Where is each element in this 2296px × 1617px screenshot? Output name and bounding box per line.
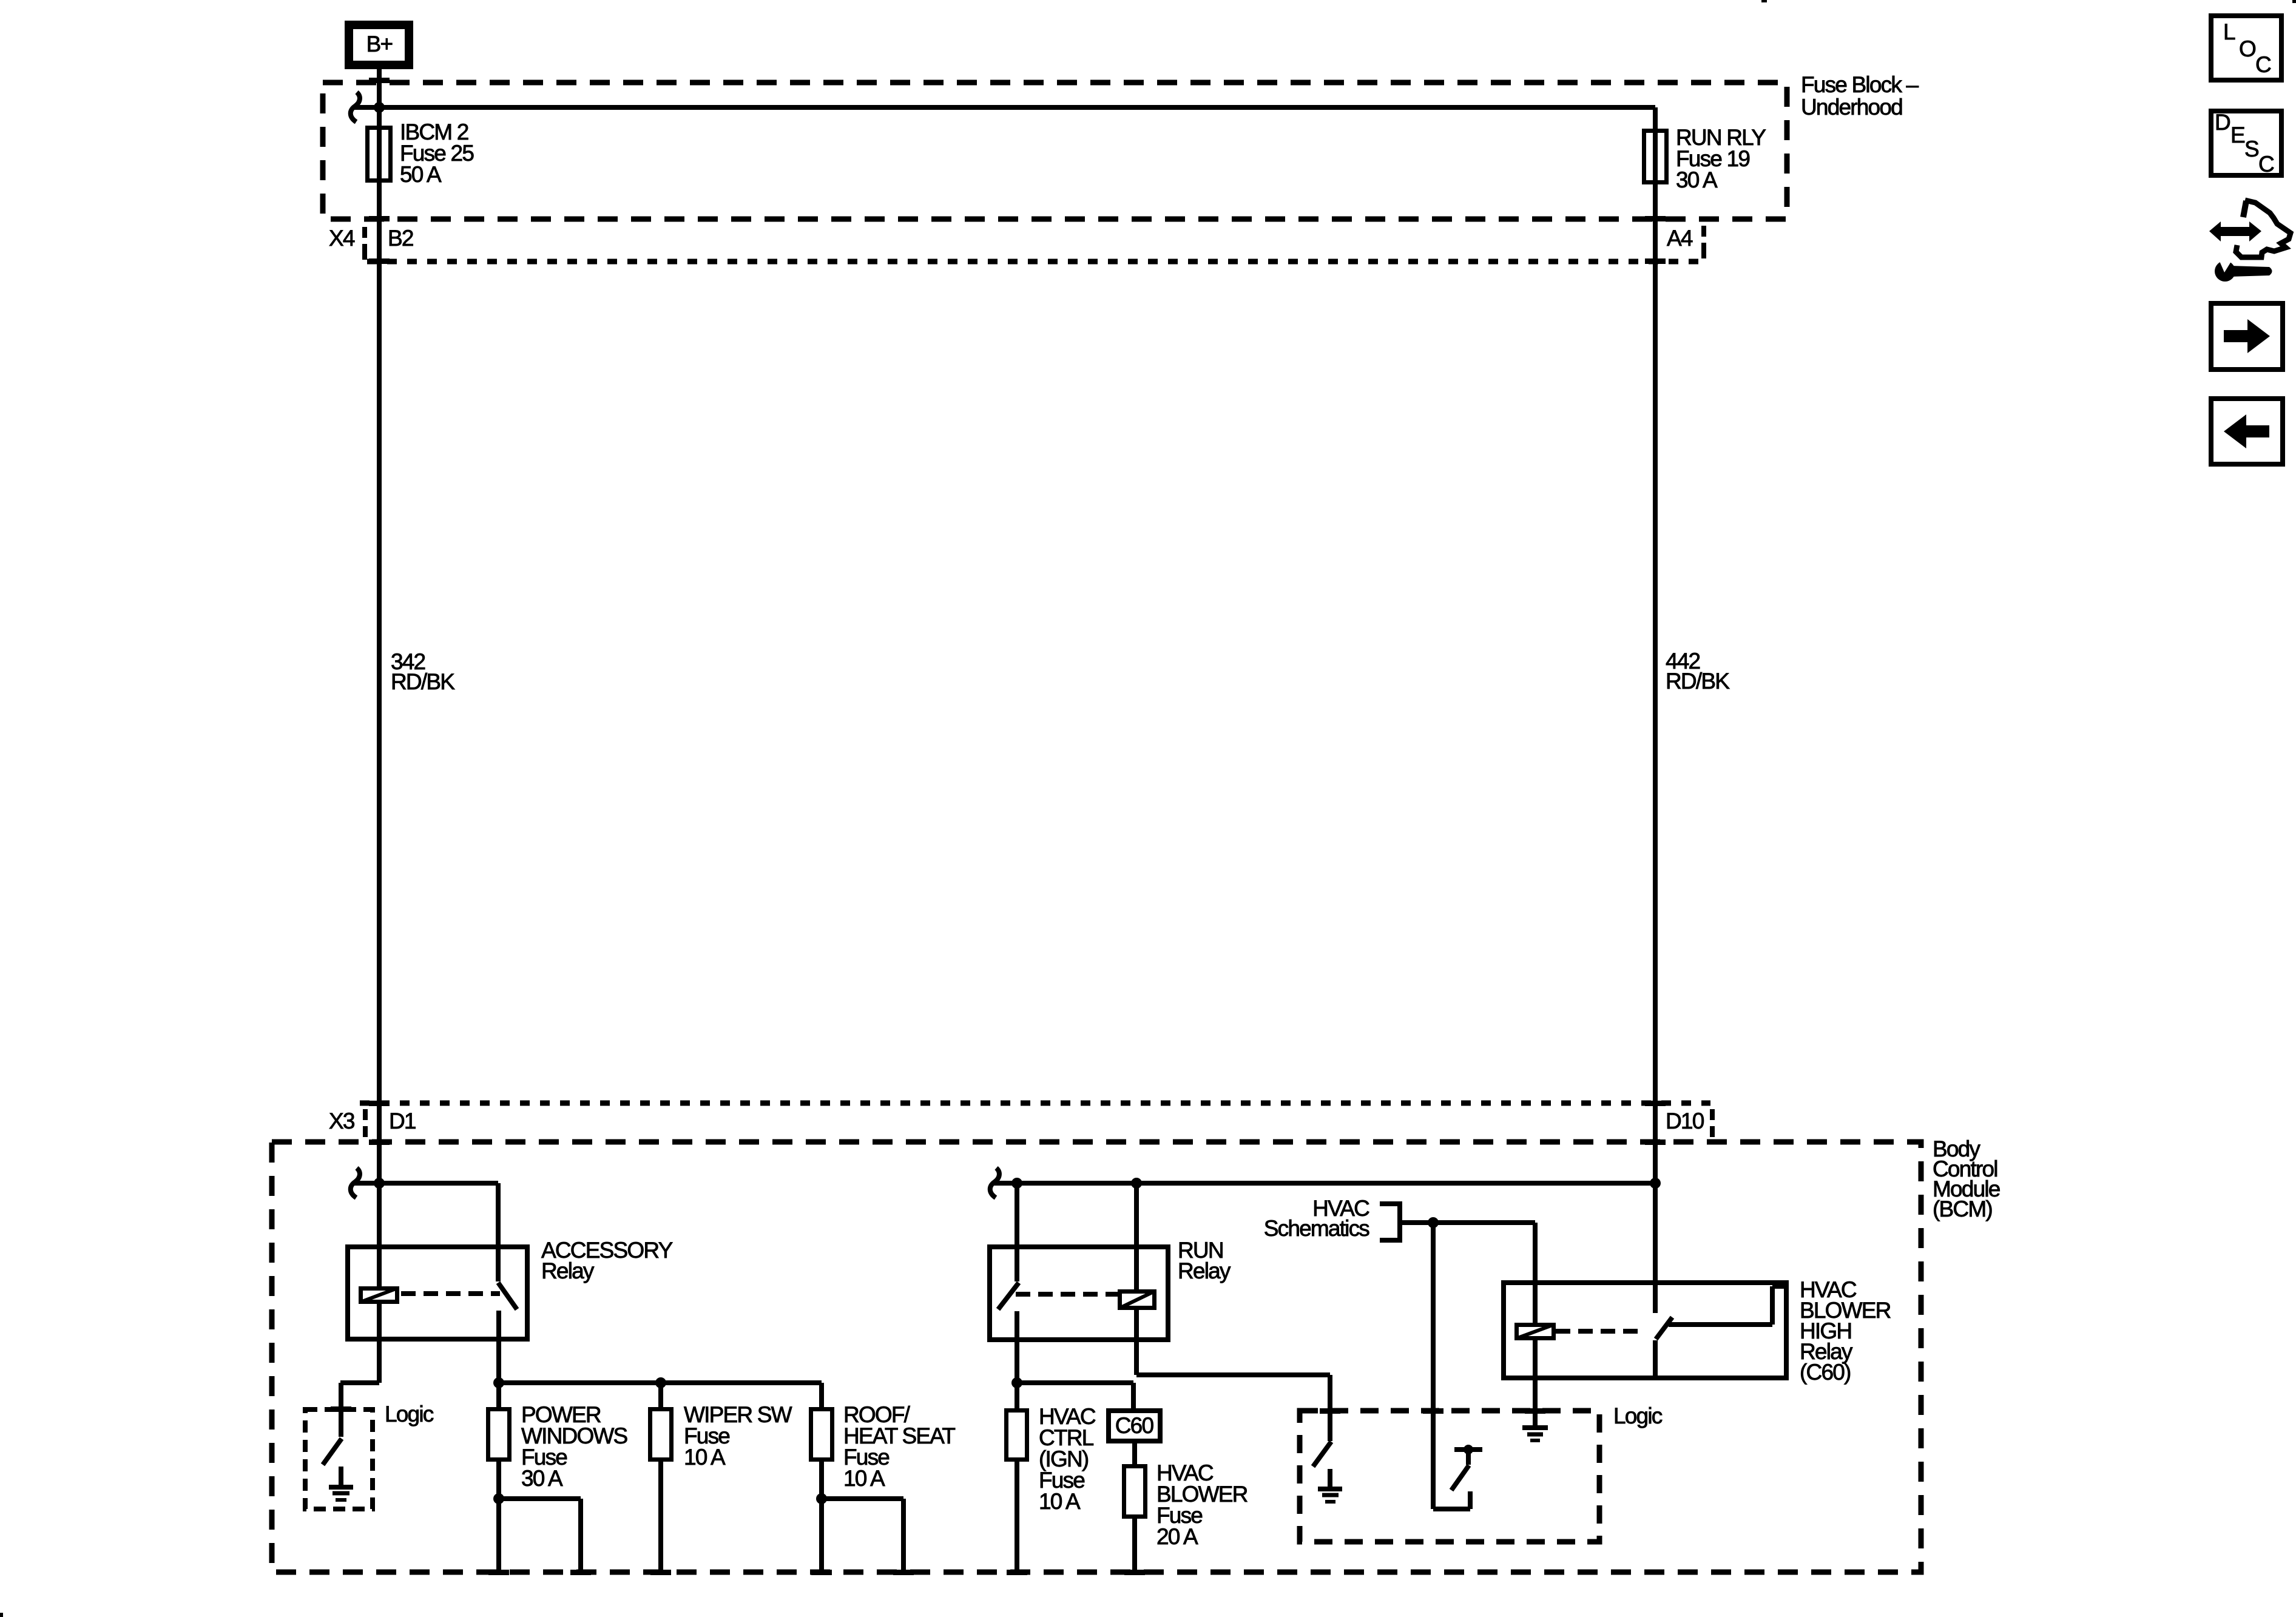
node junction BCM left bus [374,1178,385,1189]
fuse POWER WINDOWS 30A [488,1383,627,1573]
relay K2 coil [1119,1183,1155,1308]
wire continuation curl BCM left [351,1168,360,1198]
svg-text:D1: D1 [389,1109,416,1133]
svg-text:Logic: Logic [1613,1403,1663,1428]
fuse HVAC BLOWER 20A [1124,1441,1248,1573]
bracket HVAC schematics [1380,1204,1400,1240]
power node B+ [349,25,409,65]
node junction ACC switch out [493,1377,504,1388]
tick RF branch at BCM bottom [893,1570,914,1575]
icon arrow right box [2211,303,2283,370]
svg-text:Underhood: Underhood [1801,95,1902,120]
tick PW branch at BCM bottom [570,1570,591,1575]
svg-text:(BCM): (BCM) [1933,1197,1992,1221]
node junction top bus [374,102,385,113]
svg-text:Relay: Relay [1178,1258,1231,1283]
svg-text:C60: C60 [1115,1413,1154,1438]
wire blower coil ground [1533,1340,1538,1426]
tick WS wire at BCM bottom [650,1570,671,1575]
relay K3 actuator dashed link [1556,1329,1646,1334]
speck bottom left [0,1613,3,1617]
node junction below PW fuse [493,1493,504,1504]
svg-text:D: D [2215,110,2230,135]
node junction below RF fuse [816,1493,827,1504]
node junction HVAC feed [1428,1217,1439,1228]
svg-text:10 A: 10 A [684,1445,726,1470]
label HVAC Schematics [1264,1196,1370,1241]
svg-text:Schematics: Schematics [1264,1216,1370,1241]
speck top middle [1761,0,1767,2]
tick wire 342 at fuse block top [369,78,390,83]
svg-text:L: L [2223,19,2235,44]
wire blower coil feed [1533,1223,1538,1323]
body control module BCM dashed box [272,1136,2000,1572]
fuse block - underhood dashed box [323,72,1919,219]
wire S3 feed [1431,1223,1436,1509]
wire 442 RD/BK vertical [1653,107,1658,1313]
wire RUN out to C60 [1017,1383,1133,1411]
wire top bus [354,105,1655,110]
svg-text:Relay: Relay [541,1258,595,1283]
tick wire 442 at connector X4 [1645,258,1666,264]
connector C60 box [1109,1411,1160,1441]
wire BCM right bus [994,1181,1655,1186]
svg-text:(C60): (C60) [1800,1360,1851,1385]
svg-text:10 A: 10 A [843,1466,885,1491]
node junction 442 tee [1650,1178,1661,1189]
svg-text:O: O [2239,36,2256,61]
relay K1 actuator dashed link [401,1291,500,1296]
relay K3 switch [1655,1286,1789,1378]
switch S3 middle logic [1433,1445,1482,1509]
icon LOC box [2211,16,2281,80]
svg-text:C: C [2258,152,2274,177]
fuse ROOF/HEAT SEAT 10A [811,1383,956,1573]
relay K2 actuator dashed link [1016,1292,1118,1297]
connector X4 separator left [362,227,367,260]
tick PW wire at BCM bottom [488,1570,509,1575]
fuse F25 IBCM 2 [368,120,474,187]
wire RUN coil to logic [1136,1310,1330,1441]
ground G2 middle [1318,1469,1342,1502]
tick ground wire at logic box top [1525,1408,1545,1414]
svg-text:RD/BK: RD/BK [1666,669,1730,694]
svg-text:A4: A4 [1667,226,1693,251]
node junction RUN switch feed [1011,1178,1022,1189]
wire ACC coil to logic [340,1304,379,1437]
relay K2 RUN box [990,1238,1231,1340]
wire continuation curl top [351,92,360,122]
wire B+ stem [377,66,382,107]
tick HVAC BLOWER wire at BCM bottom [1124,1570,1145,1575]
svg-text:C: C [2255,52,2271,77]
tick RF wire at BCM bottom [811,1570,832,1575]
node junction RUN switch out [1011,1377,1022,1388]
svg-text:E: E [2230,123,2245,147]
svg-text:B+: B+ [366,32,393,56]
wire label 342 RD/BK [391,649,455,694]
svg-text:30 A: 30 A [521,1466,563,1491]
relay K1 coil [360,1288,397,1302]
tick wire 442 at connector X3 [1645,1101,1666,1106]
svg-text:X3: X3 [329,1109,354,1133]
wire HVAC schematics feed [1400,1220,1535,1225]
tick wire 342 at connector X4 [369,258,390,264]
tick wire 442 at BCM top [1645,1139,1666,1145]
svg-text:Fuse Block –: Fuse Block – [1801,72,1919,97]
connector row X3 dotted line [360,1101,1710,1106]
relay K3 HVAC BLOWER HIGH box [1504,1277,1891,1385]
relay K3 coil [1516,1325,1554,1338]
tick HVAC CTRL wire at BCM bottom [1007,1570,1027,1575]
node junction RUN coil feed [1131,1178,1142,1189]
connector row X4 dotted line [367,259,1699,265]
tick wire 342 at fuse block bottom [369,216,390,221]
tick logic left box top [331,1406,351,1412]
svg-text:50 A: 50 A [400,162,442,187]
icon arrow left box [2211,399,2283,464]
switch S1 logic left blade [323,1439,342,1465]
logic box middle dashed [1300,1403,1663,1542]
relay K1 switch [498,1183,517,1381]
wire RF branch [822,1499,903,1573]
node junction wiper feed [655,1377,666,1388]
wire lower bus left [499,1380,822,1385]
wire label 442 RD/BK [1666,649,1730,694]
wire 342 RD/BK vertical [377,107,382,1286]
ground G1 left [329,1467,353,1500]
fuse WIPER SW 10A [650,1383,792,1573]
fuse HVAC CTRL (IGN) 10A [1007,1383,1096,1573]
svg-text:20 A: 20 A [1156,1524,1198,1549]
wire PW branch [499,1499,581,1573]
svg-text:Logic: Logic [385,1402,434,1426]
svg-text:RD/BK: RD/BK [391,669,455,694]
svg-text:X4: X4 [329,226,355,251]
icon swap wrench [2209,200,2291,282]
svg-text:S: S [2244,137,2258,161]
logic box left dashed [305,1402,434,1509]
tick S2 wire at logic box top [1320,1408,1340,1414]
ground G3 blower [1522,1428,1548,1440]
switch S2 logic middle blade [1313,1442,1331,1467]
svg-text:B2: B2 [388,226,413,251]
speck top right [2292,0,2296,3]
tick wire 342 at connector X3 [369,1101,390,1106]
tick wire 442 at fuse block bottom [1645,216,1666,221]
relay K2 switch [998,1183,1019,1381]
connector X3 separator left [363,1109,368,1137]
svg-text:D10: D10 [1666,1109,1704,1133]
svg-text:10 A: 10 A [1039,1489,1081,1514]
relay K1 ACCESSORY box [348,1238,673,1339]
fuse F19 RUN RLY [1644,125,1766,192]
connector X4 separator right [1701,226,1706,258]
tick S3 wire at logic box top [1423,1408,1443,1414]
wire continuation curl BCM middle [990,1168,999,1198]
svg-text:30 A: 30 A [1676,167,1718,192]
connector X3 separator right [1710,1109,1715,1137]
tick wire 342 at BCM top [369,1139,390,1145]
wire BCM left bus [354,1183,498,1244]
icon DESC box [2211,110,2281,177]
